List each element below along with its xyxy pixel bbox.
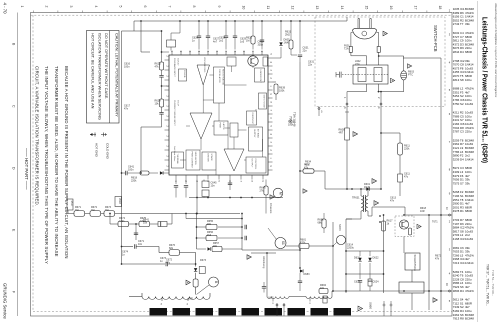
svg-text:100u: 100u — [465, 78, 472, 82]
IC 7060 outline — [169, 55, 268, 175]
svg-text:100n: 100n — [128, 169, 134, 172]
warning triangle at riser — [186, 280, 190, 285]
svg-text:STAGE: STAGE — [210, 154, 213, 162]
hot boundary dashed top — [31, 14, 453, 16]
svg-text:S990: S990 — [369, 302, 373, 309]
warning triangle below filter — [391, 78, 395, 82]
degauss coupler oval — [401, 71, 415, 81]
svg-text:BECAUSE A HOT GROUND IS PRESEN: BECAUSE A HOT GROUND IS PRESENT IN THE P… — [64, 66, 69, 259]
mains down left — [346, 106, 348, 128]
svg-text:Abweichungen und Schaltpläne /: Abweichungen und Schaltpläne / Layout of… — [494, 2, 498, 98]
IC block thermal bottom left — [172, 152, 184, 168]
capacitor below resistor — [398, 155, 411, 196]
svg-text:TR631: TR631 — [352, 197, 360, 200]
capacitor on riser — [134, 223, 138, 240]
svg-text:L651: L651 — [188, 298, 194, 301]
svg-text:4: 4 — [94, 6, 98, 8]
module down wire — [403, 237, 405, 254]
secondary labeled block — [405, 253, 420, 271]
svg-text:3k3: 3k3 — [207, 234, 212, 237]
svg-text:8: 8 — [192, 6, 196, 8]
mains plug — [353, 19, 377, 39]
transformer bottom wiring — [360, 216, 362, 219]
svg-text:COLD GND: COLD GND — [105, 143, 109, 160]
cap block below ic — [202, 180, 217, 198]
resistor drop at x291 — [285, 20, 297, 55]
wire y253 to coil2 riser — [251, 252, 276, 254]
oval resistor on riser — [193, 273, 198, 295]
branch to coupler — [379, 55, 404, 57]
diode on riser — [194, 259, 207, 274]
rectifier diode — [364, 183, 371, 191]
svg-text:22n: 22n — [308, 64, 313, 67]
junction dots top rails — [351, 188, 353, 190]
warning triangle at module — [417, 224, 421, 228]
svg-text:6: 6 — [143, 6, 147, 8]
IC block protection right — [259, 93, 267, 109]
svg-text:4n7: 4n7 — [213, 41, 218, 44]
svg-text:33k: 33k — [465, 22, 470, 26]
wire x197 down — [196, 180, 198, 214]
svg-text:1N40: 1N40 — [364, 186, 371, 189]
rail x383 — [383, 215, 385, 293]
svg-text:22n: 22n — [303, 50, 308, 53]
IC comparator triangle 2 — [190, 113, 212, 139]
svg-text:10u63: 10u63 — [465, 102, 473, 106]
svg-text:1M: 1M — [246, 40, 249, 43]
wire rc to ic pin — [162, 51, 170, 53]
svg-text:ISOLATION TRANSFORMER WHEN SER: ISOLATION TRANSFORMER WHEN SERVICING — [98, 33, 103, 120]
svg-text:3: 3 — [69, 6, 73, 8]
left long vertical wire — [121, 31, 123, 264]
right lead to filter — [378, 52, 380, 65]
capacitor pair C628 C629 — [219, 33, 237, 50]
svg-text:2200u: 2200u — [347, 247, 355, 250]
svg-text:4813 S8: 4813 S8 — [453, 78, 464, 82]
svg-text:SWITCH-PCB: SWITCH-PCB — [433, 25, 438, 52]
svg-text:6750 S2: 6750 S2 — [453, 102, 464, 106]
switch S1 circle — [268, 228, 286, 249]
svg-text:DO NOT OPERATE WITHOUT CASE.: DO NOT OPERATE WITHOUT CASE. — [104, 33, 109, 99]
row y246 with cap — [121, 240, 159, 253]
svg-text:47n: 47n — [390, 200, 395, 203]
svg-text:10: 10 — [241, 6, 245, 10]
svg-text:1M: 1M — [91, 209, 94, 212]
labels cold side — [347, 197, 442, 261]
warning triangle below ic — [270, 195, 274, 199]
resistor stack row 1 — [197, 220, 247, 230]
SMPS transformer core — [363, 195, 365, 212]
caution box lines — [90, 33, 119, 120]
sheet border frame — [31, 13, 453, 317]
svg-text:2743 T7: 2743 T7 — [453, 22, 464, 26]
IC pin stubs left — [165, 56, 170, 171]
SMPS transformer secondary winding — [366, 189, 368, 216]
svg-text:33k: 33k — [465, 181, 470, 185]
svg-text:OUTPUT: OUTPUT — [251, 159, 253, 169]
secondary top rail — [372, 206, 405, 208]
svg-text:TVR 51... TVR 60...: TVR 51... TVR 60... — [491, 270, 495, 296]
svg-text:1N414: 1N414 — [465, 261, 474, 265]
svg-text:FOLDBACK INPUT: FOLDBACK INPUT — [173, 58, 176, 78]
resistor R623 — [155, 62, 164, 70]
junction at module top — [403, 214, 405, 216]
resistor on right rail — [398, 143, 411, 155]
resistor after S1 — [286, 239, 334, 249]
row y264 wire — [121, 257, 197, 266]
warning triangle near plug — [383, 31, 387, 36]
IC pin stubs top — [170, 51, 262, 56]
bottom edge connector pins — [383, 301, 392, 316]
cap at coil2 left — [262, 282, 266, 293]
resistor stack row 2 — [197, 231, 247, 241]
SWITCH-PCB dashed outline — [315, 17, 445, 107]
IC block supply — [249, 127, 263, 151]
svg-text:SUPPLY: SUPPLY — [253, 129, 255, 138]
x141 vertical wire — [140, 21, 142, 52]
svg-text:S1: S1 — [281, 241, 285, 245]
SMPS transformer primary winding — [360, 188, 363, 216]
IC block foldback — [179, 69, 187, 81]
IC internal transistor — [248, 56, 258, 66]
svg-text:UNDERVOLT: UNDERVOLT — [259, 70, 261, 84]
svg-text:CAUTION: LETHAL POTENTIALS AT: CAUTION: LETHAL POTENTIALS AT PRIMARY — [114, 33, 119, 117]
transistor in module — [399, 220, 408, 229]
stack right bus — [241, 214, 243, 251]
ground legend hot gnd — [90, 133, 98, 158]
IC block ovp mid — [247, 111, 257, 125]
IC pin stubs right — [268, 54, 273, 171]
svg-text:Chassis: Chassis — [269, 203, 273, 214]
wire drops to ic top — [179, 20, 263, 33]
svg-text:HOT CIRCUIT. BE CAREFUL AND US: HOT CIRCUIT. BE CAREFUL AND USE AN — [90, 33, 95, 109]
svg-text:HOT GND: HOT GND — [94, 143, 98, 158]
protection module dashed box — [395, 216, 414, 237]
capacitor below ic 2 — [228, 180, 232, 191]
svg-text:Leistungs-Chassis / Power Chas: Leistungs-Chassis / Power Chassis TVR 51… — [481, 17, 490, 163]
svg-text:1n5: 1n5 — [240, 41, 245, 44]
boxed reference label 2 — [115, 197, 122, 207]
component index list — [449, 7, 475, 321]
capacitor block at ic top left — [167, 33, 181, 51]
fusible resistor — [339, 128, 350, 140]
transformer circle B — [197, 277, 219, 295]
capacitor cell 1 — [354, 274, 362, 291]
svg-text:3806 R4: 3806 R4 — [453, 289, 464, 293]
cap res diode row y173 — [121, 166, 169, 176]
capacitor cell 2 — [368, 274, 379, 291]
capacitor pair C626 C627 — [192, 33, 210, 50]
IC block ref top right — [263, 57, 268, 66]
grid ruler letters left — [12, 43, 16, 293]
svg-text:3517: 3517 — [70, 201, 74, 207]
svg-text:680R: 680R — [465, 209, 472, 213]
resistor top of x333 — [318, 213, 327, 233]
svg-text:PWM: PWM — [219, 123, 221, 129]
secondary block lower rect — [399, 270, 424, 310]
IC block comparator ref — [230, 123, 238, 137]
svg-text:47u: 47u — [166, 262, 171, 265]
row wire y274 — [346, 273, 384, 275]
cold rail x429 — [428, 215, 430, 310]
svg-text:REGISTRATION: REGISTRATION — [222, 69, 225, 86]
svg-text:C623: C623 — [354, 281, 361, 284]
svg-text:D673: D673 — [200, 259, 207, 262]
feedback vertical wire x300 — [299, 62, 301, 268]
svg-text:13: 13 — [315, 6, 319, 10]
rail x346 — [345, 219, 347, 293]
svg-text:Ablenkung: Ablenkung — [262, 256, 266, 269]
svg-text:17: 17 — [414, 6, 418, 10]
junction circle M — [273, 188, 283, 198]
fuse on right lead — [377, 47, 380, 53]
riser x195 down to coil — [195, 253, 197, 267]
svg-text:D622: D622 — [373, 257, 380, 260]
svg-text:PRIM.CURRENT: PRIM.CURRENT — [191, 152, 193, 169]
warning triangle above transformer — [372, 179, 377, 184]
choke coil 2 section b — [306, 291, 333, 298]
wire down to transformer rail — [346, 140, 348, 189]
plug left lead — [351, 32, 353, 34]
hot/cold black separator dashes — [150, 308, 352, 315]
svg-text:7575 S7: 7575 S7 — [453, 181, 464, 185]
svg-text:T671: T671 — [432, 221, 438, 224]
diode cell x300 — [300, 268, 310, 283]
svg-text:L652: L652 — [268, 297, 274, 300]
svg-text:4168 IC3: 4168 IC3 — [453, 237, 465, 241]
junction to double bus — [168, 213, 240, 215]
svg-text:7: 7 — [168, 6, 172, 8]
left lead to filter — [350, 52, 352, 56]
choke coil 1 — [129, 293, 210, 299]
svg-text:TVR 37... TVR 51... TVR 60..: TVR 37... TVR 51... TVR 60... — [486, 264, 490, 306]
warning triangle at fusible resistor — [353, 132, 358, 137]
svg-text:9: 9 — [217, 6, 221, 8]
choke coil 1 pins — [161, 298, 189, 306]
fuse on left lead — [344, 45, 352, 53]
svg-text:1N414: 1N414 — [465, 157, 474, 161]
diode right of ic — [273, 20, 291, 58]
IC pin stubs bottom — [174, 175, 263, 183]
warning triangle at transformer — [374, 201, 379, 206]
svg-text:C624: C624 — [373, 281, 380, 284]
svg-text:2M2: 2M2 — [285, 34, 290, 37]
svg-text:2844 D4: 2844 D4 — [453, 50, 464, 54]
IC block primary current — [186, 150, 200, 170]
svg-text:47u: 47u — [404, 176, 409, 179]
svg-text:LATCH: LATCH — [222, 123, 225, 130]
second bus y218 — [186, 218, 242, 220]
svg-text:5: 5 — [118, 6, 122, 8]
x161 vertical wire — [161, 31, 163, 62]
svg-text:15: 15 — [364, 6, 368, 10]
svg-text:10n: 10n — [211, 185, 216, 188]
svg-text:1: 1 — [20, 6, 24, 8]
svg-text:S966: S966 — [338, 224, 342, 231]
transformer top rail wire — [347, 188, 381, 190]
separator line left of title — [477, 1, 479, 322]
IC block output right bottom — [246, 157, 266, 173]
resistor in module — [408, 228, 411, 235]
svg-text:D621: D621 — [354, 257, 361, 260]
svg-text:10R: 10R — [420, 210, 425, 213]
edge pin y215 — [445, 207, 451, 216]
svg-text:1M: 1M — [75, 209, 78, 212]
svg-text:10u63: 10u63 — [465, 237, 473, 241]
choke coil 2 section a — [267, 293, 289, 299]
second resistor row y224 — [109, 213, 172, 227]
IC internal connections — [202, 85, 204, 113]
svg-text:330p: 330p — [258, 44, 264, 47]
capacitor C624 — [159, 107, 163, 123]
capacitor right of ic — [298, 20, 309, 62]
svg-text:16: 16 — [389, 6, 393, 10]
capacitor cell x300 — [298, 273, 302, 291]
svg-text:C6/C57: C6/C57 — [177, 58, 179, 66]
svg-text:7213 IC4: 7213 IC4 — [453, 261, 465, 265]
row wire y291 — [333, 290, 452, 292]
svg-text:THE INPUT VOLTAGE SLOWLY, WHEN: THE INPUT VOLTAGE SLOWLY, WHEN TROUBLESH… — [44, 66, 49, 264]
cold rail x441 — [440, 58, 442, 310]
ecap near coil2 — [323, 296, 327, 303]
svg-text:18: 18 — [438, 6, 442, 10]
svg-text:Soft-Start 14ms: Soft-Start 14ms — [173, 146, 176, 162]
svg-text:O.C.P.: O.C.P. — [177, 100, 179, 107]
svg-text:4R7: 4R7 — [339, 132, 344, 135]
svg-text:PTC: PTC — [408, 74, 413, 77]
svg-text:3787 C3: 3787 C3 — [453, 130, 464, 134]
svg-text:100k: 100k — [279, 90, 285, 93]
IC block oscillator tall — [214, 67, 225, 103]
svg-text:B: B — [214, 281, 218, 284]
cold rail top branch — [403, 57, 441, 59]
plug right lead — [376, 32, 378, 34]
svg-text:220k: 220k — [131, 180, 137, 183]
svg-text:SCHUTZSCH.: SCHUTZSCH. — [413, 255, 417, 272]
svg-text:47k2%: 47k2% — [465, 289, 474, 293]
choke coil 2 middle — [289, 296, 306, 298]
IC block driver — [202, 152, 216, 170]
resistor R624 — [155, 99, 164, 107]
service note paragraph — [34, 66, 69, 264]
svg-text:OVERVOLT: OVERVOLT — [251, 113, 253, 125]
top bus wire — [134, 20, 347, 22]
svg-text:SCHUTZSCH.: SCHUTZSCH. — [263, 95, 265, 109]
svg-text:47n: 47n — [124, 108, 129, 111]
feedback resistor row y171 — [299, 164, 347, 190]
extra top labels — [213, 38, 264, 47]
svg-text:F: F — [12, 291, 16, 293]
svg-text:470k: 470k — [300, 242, 306, 245]
warning triangle mid low — [247, 255, 251, 260]
sub-ic bus y197 — [189, 197, 283, 199]
svg-text:10n: 10n — [138, 243, 143, 246]
svg-text:100n: 100n — [124, 66, 130, 69]
svg-text:27m: 27m — [355, 63, 360, 66]
bottom border pin stubs — [276, 303, 285, 316]
svg-text:14: 14 — [340, 6, 344, 10]
capacitor C623 — [159, 70, 163, 99]
svg-text:INT.BIAS: INT.BIAS — [257, 129, 260, 138]
rc stack bottom route — [161, 123, 163, 127]
rectifier diode cell 2 — [368, 251, 379, 274]
mains down right — [380, 106, 382, 133]
svg-text:12: 12 — [291, 6, 295, 10]
svg-text:OSCILLATOR: OSCILLATOR — [218, 69, 221, 83]
svg-text:TRANSFORMER MUST BE USED. ALSO: TRANSFORMER MUST BE USED. ALSO, IN ORDER… — [54, 66, 59, 257]
svg-text:—— HOT PART ——: —— HOT PART —— — [24, 148, 29, 190]
IC comparator triangle 3 — [224, 149, 244, 171]
svg-text:DRIVER: DRIVER — [207, 154, 209, 163]
resistor with warning below ic — [260, 180, 269, 214]
svg-text:220u: 220u — [465, 130, 472, 134]
choke coil 2 pins — [271, 298, 311, 305]
warning triangle at coupler — [408, 64, 412, 68]
resistor cap at ic top right — [246, 33, 264, 50]
svg-text:7913 R8: 7913 R8 — [453, 317, 464, 321]
resistor on ic right pin — [273, 82, 286, 100]
svg-text:CIRCUIT, A VARIABLE ISOLATION: CIRCUIT, A VARIABLE ISOLATION TRANSFORME… — [34, 66, 39, 206]
svg-text:T2A: T2A — [344, 48, 349, 51]
edge pin y291 — [445, 283, 451, 292]
svg-text:FOLDB.: FOLDB. — [183, 70, 185, 78]
capacitor left of filter — [336, 72, 341, 78]
svg-text:CURRENT SENSE INPUT: CURRENT SENSE INPUT — [173, 100, 175, 127]
warning triangle near feedback — [303, 189, 307, 193]
hot boundary dashed bottom — [33, 311, 452, 313]
filter exits — [366, 84, 368, 92]
caution box divider — [108, 31, 110, 124]
boxed reference label 1 — [67, 199, 74, 210]
svg-text:D683: D683 — [304, 273, 311, 276]
svg-text:SIMULATION: SIMULATION — [194, 152, 197, 166]
circle node right of S1 — [333, 235, 346, 246]
IC left edge pin function labels — [173, 58, 179, 162]
svg-text:THERMAL: THERMAL — [176, 154, 179, 165]
IC designator — [289, 112, 297, 127]
resistor chain row y213 — [68, 206, 168, 216]
bus x333 vertical — [332, 222, 334, 291]
stack left riser — [196, 214, 198, 250]
line filter box — [342, 60, 388, 84]
svg-text:11: 11 — [266, 6, 270, 10]
hot boundary dashed left — [32, 15, 34, 311]
IC block sync top — [227, 57, 236, 66]
connector pin below switch box — [318, 107, 323, 117]
IC block uv right top — [255, 68, 265, 83]
svg-text:2: 2 — [45, 6, 49, 8]
svg-text:2n2: 2n2 — [219, 40, 224, 43]
caution box frame — [87, 31, 120, 124]
svg-text:680R: 680R — [465, 50, 472, 54]
svg-text:100k: 100k — [288, 124, 294, 127]
resistor on rail x383 — [381, 220, 393, 232]
svg-text:VOLTAGE REG.: VOLTAGE REG. — [203, 57, 206, 73]
svg-text:470k: 470k — [119, 220, 125, 223]
cap pair under ic left — [174, 180, 188, 198]
svg-text:M: M — [278, 192, 282, 195]
pcb edge pins — [343, 97, 382, 109]
ground legend cold gnd — [101, 133, 109, 160]
svg-text:GRUNDIG Service: GRUNDIG Service — [3, 283, 8, 319]
IC comparator triangle 1 — [197, 65, 210, 85]
footer separator line — [17, 13, 19, 317]
svg-text:4978 R1: 4978 R1 — [453, 209, 464, 213]
warning triangle at separator end — [358, 306, 363, 311]
svg-text:220k: 220k — [404, 148, 410, 151]
svg-text:CONTROL: CONTROL — [254, 159, 256, 170]
svg-text:1M: 1M — [105, 209, 108, 212]
